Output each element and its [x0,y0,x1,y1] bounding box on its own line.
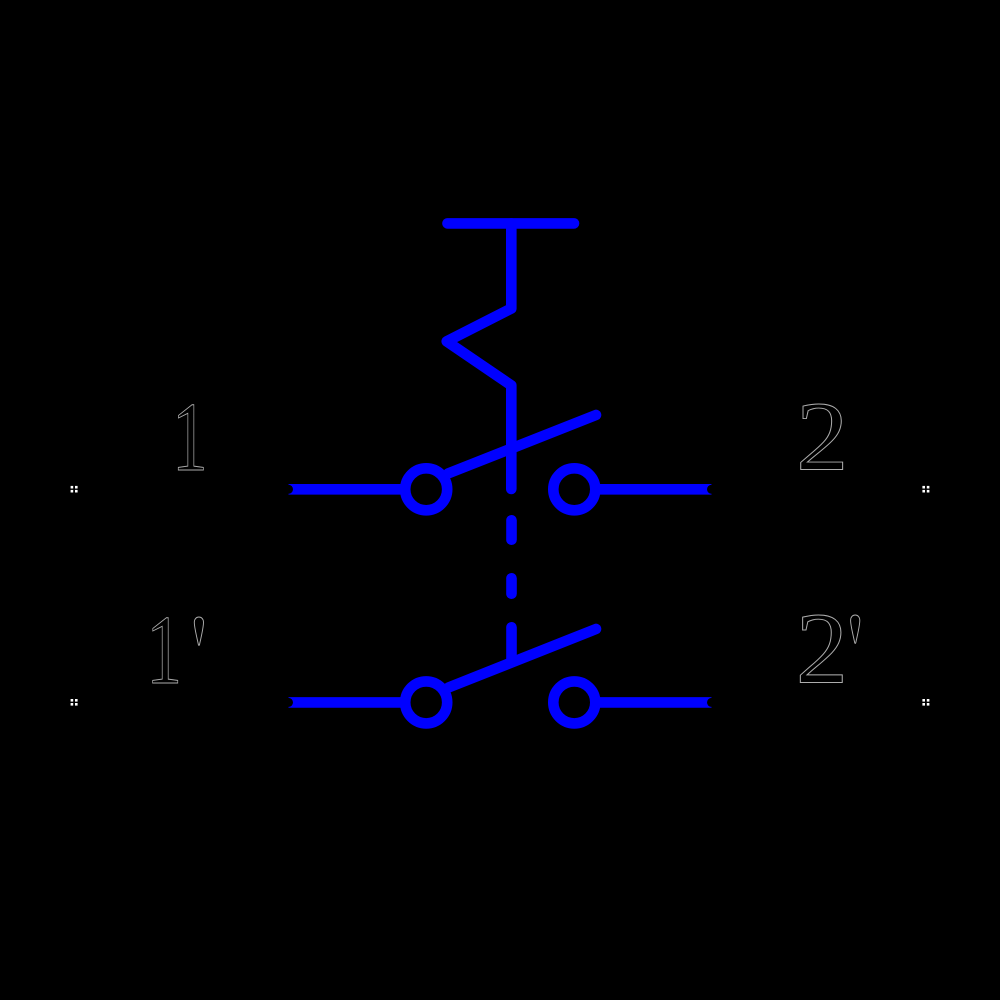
contact circle pin 2 [553,468,595,510]
svg-text:2: 2 [796,382,848,491]
contact circle pin 1' [405,681,447,723]
mechanical link dash A [506,520,517,539]
open wire end marker pin 2 [707,485,716,494]
switch blade pole 1 [448,415,596,474]
svg-text:1: 1 [172,382,208,492]
open wire end marker pin 1 [284,485,293,494]
mechanical link dash B [506,578,517,593]
junction marker left pin 1 [71,486,78,493]
junction marker right pin 2 [922,486,929,493]
wire pin 2' [600,697,712,708]
pin label 1' prime [194,617,203,645]
wire pin 1' [289,697,402,708]
wire pin 2 [600,484,712,495]
open wire end marker pin 2' [707,698,716,707]
junction marker right pin 2' [922,699,929,706]
open wire end marker pin 1' [284,698,293,707]
junction marker left pin 1' [71,699,78,706]
contact circle pin 1 [405,468,447,510]
wire pin 1 [289,484,402,495]
actuator shaft and spring zigzag [447,223,512,489]
contact circle pin 2' [553,681,595,723]
actuator button bar [448,218,575,229]
mechanical link segment C [506,627,517,658]
svg-text:2: 2 [796,593,848,705]
pin label 2' prime [851,615,860,643]
switch blade pole 2 [449,629,597,688]
svg-text:1: 1 [146,595,182,705]
